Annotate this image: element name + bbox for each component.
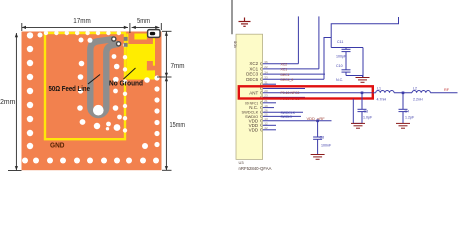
svg-text:100pF: 100pF <box>336 55 347 59</box>
pin N.C. row <box>249 104 274 110</box>
wire to top edge <box>231 0 233 34</box>
dimension 7mm <box>165 32 167 77</box>
antenna feed pads <box>124 37 128 47</box>
svg-text:GND: GND <box>50 141 65 150</box>
junction VDD <box>316 120 319 123</box>
svg-text:DEC4_6: DEC4_6 <box>281 78 294 82</box>
via in feed line U-turn <box>93 105 104 116</box>
pin VDD row <box>249 126 276 132</box>
junction node at C4 <box>402 92 405 95</box>
capacitor C8 <box>313 121 322 155</box>
svg-text:C11: C11 <box>337 40 343 44</box>
svg-text:C3: C3 <box>364 109 369 113</box>
svg-text:42: 42 <box>264 126 268 130</box>
svg-text:C10: C10 <box>336 64 343 68</box>
svg-text:12: 12 <box>264 122 268 126</box>
svg-text:DEC1: DEC1 <box>281 73 290 77</box>
pin 09 NFC1 row <box>245 99 276 105</box>
pin ANT row <box>249 89 373 95</box>
svg-text:33: 33 <box>264 76 268 80</box>
svg-text:P0.10-NFC2: P0.10-NFC2 <box>281 91 300 95</box>
svg-text:VDD: VDD <box>234 40 238 48</box>
inductor L2 <box>412 91 430 93</box>
svg-text:17mm: 17mm <box>73 16 91 25</box>
pin SWDCLK row <box>242 108 303 115</box>
PCB board copper pour <box>22 32 162 171</box>
svg-text:4.7nH: 4.7nH <box>377 97 387 101</box>
svg-text:25: 25 <box>264 113 268 117</box>
op chip U3 nRF52840-QFAA body <box>236 34 263 159</box>
svg-text:2.2nH: 2.2nH <box>413 97 423 101</box>
GND area outline <box>45 33 125 139</box>
svg-text:1.0pF: 1.0pF <box>363 116 373 120</box>
svg-text:50Ω Feed Line: 50Ω Feed Line <box>49 84 91 93</box>
junction node on ANT wire <box>361 92 364 95</box>
svg-text:23: 23 <box>264 94 268 98</box>
svg-text:VDD: VDD <box>249 127 259 132</box>
svg-text:C8: C8 <box>320 135 325 139</box>
ground for C4 <box>396 123 410 128</box>
wire XC1 up <box>318 16 320 69</box>
pin VDD row <box>249 117 332 123</box>
svg-text:U3: U3 <box>239 160 245 165</box>
stitching vias on GND outline top <box>44 31 121 35</box>
svg-text:22mm: 22mm <box>0 97 15 106</box>
svg-text:19: 19 <box>264 104 268 108</box>
ground for C8 <box>311 155 325 160</box>
pin 23 row <box>261 94 305 100</box>
50-ohm feed line (gray U-shaped microstrip) <box>90 39 118 115</box>
top interconnect wire <box>331 17 398 48</box>
svg-text:N.C.: N.C. <box>336 78 343 82</box>
svg-text:ANT: ANT <box>249 90 258 95</box>
svg-text:XC1: XC1 <box>281 68 288 72</box>
pin 24 row <box>261 85 305 91</box>
dimension 15mm <box>165 77 167 170</box>
pin DEC6 row <box>246 76 324 83</box>
capacitor C4 <box>399 93 408 124</box>
dimension 5mm <box>132 26 160 28</box>
pin SWDIO row <box>245 113 301 120</box>
ground symbol for C11/C10 <box>362 76 364 78</box>
capacitor C11 <box>331 48 363 78</box>
svg-text:DEC6: DEC6 <box>246 77 259 82</box>
svg-text:15mm: 15mm <box>170 120 186 129</box>
ground for C3 <box>351 123 365 128</box>
svg-text:No Ground: No Ground <box>109 78 143 87</box>
feed transition vias <box>112 37 121 46</box>
pin XC2 row <box>249 60 298 67</box>
svg-text:C4: C4 <box>405 109 410 113</box>
pin 31 row <box>261 80 276 86</box>
ground symbol top-left <box>239 18 251 27</box>
svg-text:RF: RF <box>444 88 450 92</box>
svg-text:13: 13 <box>264 117 268 121</box>
svg-text:20: 20 <box>264 89 268 93</box>
pin VDD row <box>249 122 276 128</box>
svg-text:L1: L1 <box>377 86 381 90</box>
antenna keep-out area (no ground) <box>126 34 155 80</box>
svg-text:1.2pF: 1.2pF <box>405 116 415 120</box>
svg-text:36: 36 <box>264 60 268 64</box>
dimension 17mm <box>22 26 128 28</box>
capacitor C3 <box>353 93 366 124</box>
antenna trace meander <box>128 34 134 45</box>
wire XC2 up <box>297 16 299 63</box>
chip antenna component <box>148 30 160 38</box>
pin XC1 row <box>249 65 318 72</box>
svg-text:5mm: 5mm <box>137 16 150 25</box>
dimension 22mm <box>15 33 17 170</box>
stitching vias on GND outline right <box>123 43 127 133</box>
red highlight box around ANT path <box>239 86 373 98</box>
svg-text:100nF: 100nF <box>321 143 332 147</box>
wire DEC4_6 riser to C11 <box>324 38 331 80</box>
svg-text:nRF52840-QFAA: nRF52840-QFAA <box>239 166 272 171</box>
pin DEC3 row <box>246 70 325 77</box>
RF output wire <box>430 92 457 94</box>
svg-text:XC2: XC2 <box>281 63 288 67</box>
svg-text:7mm: 7mm <box>171 61 185 70</box>
vias (white dots) <box>22 32 160 163</box>
svg-text:SWDIO: SWDIO <box>281 115 293 119</box>
antenna ground stub <box>147 61 153 70</box>
svg-text:22: 22 <box>264 65 268 69</box>
inductor L1 <box>373 92 376 94</box>
svg-text:VDD_nRF: VDD_nRF <box>307 116 326 121</box>
svg-text:L2: L2 <box>413 86 417 90</box>
svg-text:34: 34 <box>264 70 268 74</box>
capacitor C10 (N.C.) <box>342 70 363 76</box>
